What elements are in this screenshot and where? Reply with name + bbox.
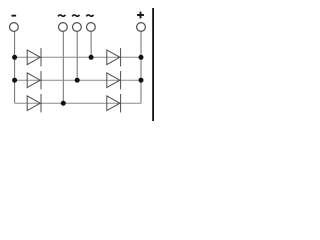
tilde sign 3: [86, 15, 93, 17]
terminal circle ac1: [59, 23, 68, 32]
wire: ac phase 2 stem: [76, 31, 78, 80]
terminal circle ac3: [87, 23, 96, 32]
junction dot: minus bus / rail 1: [12, 55, 17, 60]
plus sign: [137, 12, 144, 19]
terminal circle minus: [10, 23, 19, 32]
wire: ac phase 1 stem: [62, 31, 64, 103]
terminal circle plus: [137, 23, 146, 32]
junction dot: plus bus / rail 2: [139, 78, 144, 83]
diode D5 (left, rail 3): [27, 94, 41, 112]
junction dot: phase 2 / rail 2: [75, 78, 80, 83]
wire: dc minus bus: [14, 31, 16, 103]
diode D3 (left, rail 2): [27, 71, 41, 89]
diode D2 (right, rail 1): [107, 48, 121, 66]
diode D6 (right, rail 3): [107, 94, 121, 112]
tilde sign 2: [72, 15, 79, 17]
junction dot: phase 1 / rail 3: [61, 101, 66, 106]
wire: rail 3: [15, 102, 141, 104]
diode D4 (right, rail 2): [107, 71, 121, 89]
terminal circle ac2: [73, 23, 82, 32]
wire: dc plus bus: [140, 31, 142, 103]
wire: rail 1: [15, 56, 141, 58]
tilde sign 1: [58, 15, 65, 17]
junction dot: plus bus / rail 1: [139, 55, 144, 60]
minus sign: [12, 15, 17, 17]
wire: ac phase 3 stem: [90, 31, 92, 57]
right page border: [152, 8, 154, 121]
diode D1 (left, rail 1): [27, 48, 41, 66]
junction dot: phase 3 / rail 1: [89, 55, 94, 60]
wire: rail 2: [15, 79, 141, 81]
junction dot: minus bus / rail 2: [12, 78, 17, 83]
